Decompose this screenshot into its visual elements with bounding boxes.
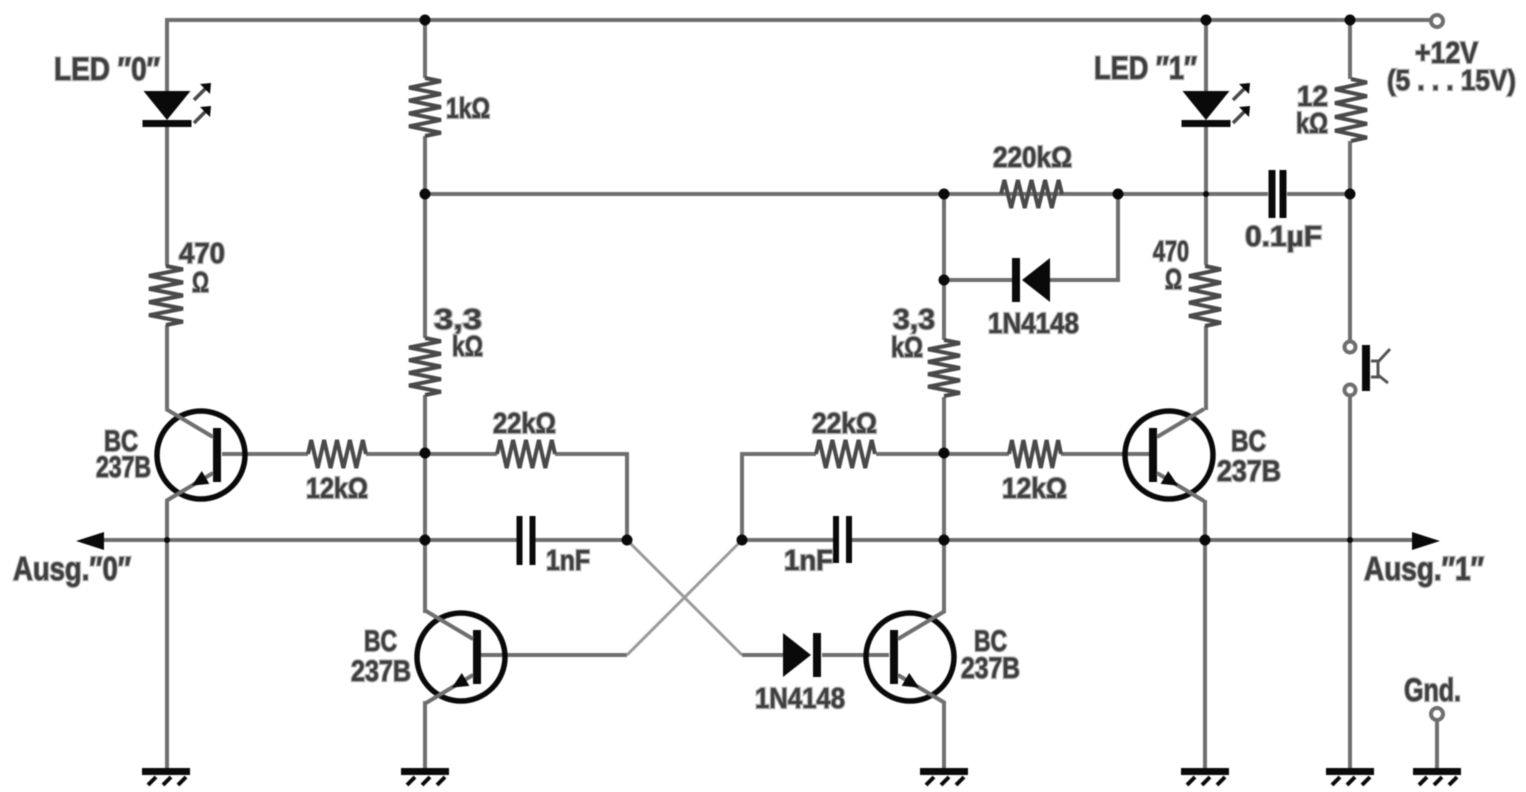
wire base row to output row x=425 (423, 453, 427, 542)
wire Gnd terminal lead (1435, 720, 1439, 768)
junction y194 / 1k column (420, 189, 431, 200)
svg-text:22kΩ: 22kΩ (493, 408, 556, 440)
svg-text:470: 470 (179, 238, 225, 270)
transistor Q3 BC237B (866, 611, 954, 703)
svg-text:LED ″1″: LED ″1″ (1094, 50, 1197, 86)
svg-text:237B: 237B (1217, 455, 1281, 488)
label R11 12 (1296, 81, 1328, 140)
wire 22k to corner x=627 (555, 452, 629, 456)
svg-text:1nF: 1nF (784, 545, 833, 577)
wire 470-right to Q4 collector (1204, 326, 1208, 410)
wire Q1 emitter to ground (165, 500, 169, 768)
wire rail to LED1 (1204, 20, 1208, 92)
svg-text:0.1µF: 0.1µF (1245, 221, 1322, 253)
label Q3 BC (961, 625, 1020, 685)
label R5 22k (493, 408, 556, 440)
svg-text:1N4148: 1N4148 (988, 308, 1079, 340)
label R4 12k (306, 473, 368, 505)
junction diode-top / 3.3k column (939, 275, 950, 286)
label R1 value 470 (179, 238, 225, 299)
transistor Q4 BC237B (1125, 409, 1213, 501)
label Q4 BC (1217, 425, 1281, 488)
svg-text:1N4148: 1N4148 (755, 683, 845, 715)
wire base row to Q3 collector (942, 453, 946, 613)
junction output row / x=742 (737, 535, 748, 546)
wire 12k-right to Q4 base (1061, 452, 1151, 456)
wire 12k top to y194 node (1348, 141, 1352, 196)
wire Q3 emitter to ground (942, 701, 946, 768)
junction y194 / diode loop corner (1113, 189, 1124, 200)
wire rail to 12k top (1348, 20, 1352, 79)
output arrow Ausg 0 (76, 532, 104, 550)
svg-text:LED ″0″: LED ″0″ (54, 51, 160, 87)
ground symbol Q4 (1181, 768, 1229, 785)
resistor R1 470 Ohm left (149, 266, 183, 325)
label Q1 BC (96, 425, 151, 484)
wire LED1 cathode to y194 (1204, 125, 1208, 196)
wire node row y=194 right segment (1287, 192, 1350, 196)
output arrow Ausg 1 (1412, 532, 1440, 550)
wire 1k to y194 node (423, 136, 427, 196)
label R2 1k (446, 93, 490, 125)
svg-text:220kΩ: 220kΩ (993, 142, 1072, 174)
ground symbol left (Q1) (142, 768, 190, 785)
label LED 0 (54, 51, 160, 87)
wire 22k-right to 3.3k node (876, 452, 946, 456)
resistor R2 1k (409, 78, 441, 136)
label D4 1N4148 (988, 308, 1079, 340)
wire Q1 base to 12k (222, 452, 308, 456)
wire diode-top cathode lead (944, 278, 1014, 282)
capacitor C1 1nF left (517, 516, 536, 565)
junction output row / x=944 (939, 535, 950, 546)
resistor R6 22k right (816, 440, 875, 468)
svg-text:Ausg.″0″: Ausg.″0″ (13, 550, 131, 587)
transistor Q2 BC237B (417, 611, 505, 703)
wire Ausg1 line (850, 538, 1412, 542)
LED D1 'LED 0' (143, 83, 212, 127)
wire Q4 emitter down to ground (1203, 500, 1207, 768)
resistor R5 22k left (497, 440, 555, 468)
svg-text:1nF: 1nF (546, 545, 590, 577)
wire 3.3k left to base row (423, 395, 427, 455)
label R7 3,3 kOhm (891, 304, 935, 364)
svg-text:kΩ: kΩ (452, 331, 483, 363)
label Ausg 1 (1364, 550, 1484, 587)
junction rail / LED1 column (1201, 15, 1212, 26)
wire node x=425 to 22k (425, 452, 497, 456)
LED D2 'LED 1' (1182, 83, 1251, 127)
wire rail to 1k resistor (423, 20, 427, 78)
svg-text:12kΩ: 12kΩ (1002, 473, 1067, 505)
label R6 22k (812, 408, 877, 440)
svg-text:Ω: Ω (192, 267, 209, 299)
svg-text:BC: BC (364, 625, 397, 658)
label Ausg 0 (13, 550, 131, 587)
transistor Q1 BC237B (157, 409, 245, 501)
wire diode-bottom cathode to Q3 base (822, 653, 889, 657)
resistor R11 12k top right (1335, 79, 1367, 141)
svg-text:kΩ: kΩ (1296, 108, 1328, 140)
junction crossing mark x=1350 (1347, 537, 1353, 543)
svg-text:BC: BC (1231, 425, 1266, 458)
label C3 0.1uF (1245, 221, 1322, 253)
resistor R7 3.3k right (928, 340, 960, 396)
diode D3 1N4148 bottom (783, 633, 821, 677)
svg-text:Ω: Ω (1165, 264, 1182, 296)
diode D4 1N4148 top (1012, 258, 1050, 302)
wire y194 to 470 right (1204, 194, 1208, 265)
wire corner x=742 down (740, 452, 744, 540)
ground symbol Q3 (920, 768, 968, 785)
label R10 470 (1153, 236, 1189, 296)
label C1 1nF (546, 545, 590, 577)
svg-text:kΩ: kΩ (891, 332, 923, 364)
label D3 1N4148 (755, 683, 845, 715)
resistor R8 220k (1001, 180, 1062, 208)
terminal +12V (1431, 15, 1443, 27)
junction y194 / LED1 column crossing (1203, 191, 1209, 197)
label +12V (1387, 35, 1516, 97)
label R9 12k (1002, 473, 1067, 505)
wire 470 to Q1 collector (165, 325, 169, 410)
resistor R9 12k right (1009, 440, 1061, 468)
resistor R3 3.3k left (409, 338, 441, 395)
wire 1nF-left to node x=627 (533, 538, 627, 542)
resistor R10 470 right (1189, 266, 1221, 326)
svg-text:237B: 237B (96, 451, 151, 484)
junction rail / 12k column (1345, 15, 1356, 26)
label Gnd (1404, 672, 1461, 708)
junction output row / x=627 (622, 535, 633, 546)
junction rail / 1k column (420, 15, 431, 26)
wire node row y=194 left segment (425, 192, 1268, 196)
wire LED0 anode from rail (165, 18, 169, 92)
svg-text:237B: 237B (351, 655, 411, 688)
junction base row / x=425 (420, 448, 431, 459)
junction output row / x=425 (420, 535, 431, 546)
svg-text:Gnd.: Gnd. (1404, 672, 1461, 708)
wire LED0 cathode to 470 (165, 125, 169, 266)
wire 3.3k node to 12k right (944, 452, 1009, 456)
junction y194 / 12k column (1345, 189, 1356, 200)
junction crossing mark x=167 (164, 537, 170, 543)
junction y194 / 3.3k right column (939, 189, 950, 200)
wire cross-coupling diagonal A (627, 540, 742, 655)
wire 3.3k right to base row (942, 397, 946, 455)
wire corner x=742 to 22k right (740, 452, 816, 456)
wire diode-top node to 3.3k right (942, 280, 946, 340)
terminal Gnd (1431, 708, 1443, 720)
label LED 1 (1094, 50, 1197, 86)
wire y194 node to button (1348, 194, 1352, 341)
svg-text:237B: 237B (961, 652, 1020, 685)
ground symbol Gnd terminal (1413, 768, 1461, 785)
wire +12V power rail top (167, 18, 1431, 22)
wire y194 to diode-top node (942, 194, 946, 282)
wire diode-top anode lead (1049, 278, 1118, 282)
wire 12k to node x=425 (366, 452, 427, 456)
capacitor C2 1nF right (833, 516, 852, 563)
label R3 3,3 kOhm (434, 304, 483, 363)
wire Q2 collector column (423, 540, 427, 613)
svg-text:Ausg.″1″: Ausg.″1″ (1364, 550, 1484, 587)
wire node x=742 to 1nF right (742, 538, 834, 542)
wire corner x=1118 up to y194 (1116, 194, 1120, 282)
wire Q2 emitter to ground (423, 701, 427, 768)
wire corner x=627 down (625, 452, 629, 540)
capacitor C3 0.1uF (1269, 170, 1287, 218)
svg-text:1kΩ: 1kΩ (446, 93, 490, 125)
ground symbol Q2 (401, 768, 449, 785)
wire Q2 base (481, 653, 627, 657)
wire button to ground (1348, 395, 1352, 768)
wire diode-bottom anode lead (742, 653, 783, 657)
junction output row / x=1205 (1200, 535, 1211, 546)
pushbutton S1 (1345, 342, 1391, 396)
junction base row / x=944 (939, 448, 950, 459)
wire Ausg0 line (90, 538, 517, 542)
label R8 220k (993, 142, 1072, 174)
svg-text:12kΩ: 12kΩ (306, 473, 368, 505)
svg-text:22kΩ: 22kΩ (812, 408, 877, 440)
label C2 1nF (784, 545, 833, 577)
wire y194 to 3.3k left (423, 194, 427, 338)
wire cross-coupling diagonal B (627, 540, 742, 655)
svg-text:(5 . . . 15V): (5 . . . 15V) (1387, 65, 1516, 97)
resistor R4 12k left (308, 440, 366, 468)
ground symbol button (1326, 768, 1374, 785)
label Q2 BC (351, 625, 411, 688)
